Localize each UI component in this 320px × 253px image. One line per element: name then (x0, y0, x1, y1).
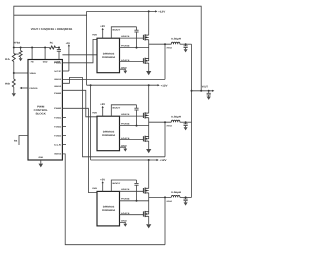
label BOOT stage 2 (113, 107, 122, 110)
label RC (50, 42, 54, 45)
wire inductor to bus stage 2 (180, 121, 192, 123)
label VOUT (202, 85, 208, 88)
wire fSET pin (19, 136, 28, 146)
wire phase vertical stage 1 (148, 40, 150, 61)
label U3 name (102, 130, 116, 137)
svg-text:PWM: PWM (92, 112, 97, 115)
svg-text:GND: GND (43, 61, 48, 64)
node feedback junction A (13, 47, 15, 49)
inductor L2 0.56uH (171, 120, 180, 122)
svg-text:PWM3: PWM3 (54, 107, 62, 110)
svg-text:RSNS: RSNS (167, 200, 173, 203)
wire +5V stub stage 3 (102, 181, 104, 191)
wire ISNS2 route (62, 78, 165, 157)
wire SMOD stage1 (62, 54, 97, 56)
wire UGATE stage 2 (120, 115, 144, 117)
wire +5V stub stage 2 (102, 106, 104, 116)
label RA (5, 58, 10, 61)
wire phase vertical stage 2 (148, 118, 150, 139)
ground (C3) (184, 202, 188, 205)
label RFB2 (13, 41, 20, 44)
svg-text:VOUT: VOUT (202, 85, 208, 88)
svg-text:UGATE: UGATE (121, 35, 130, 38)
svg-text:PGOOD: PGOOD (30, 87, 39, 90)
node ISNS tap stage 1 (164, 43, 166, 45)
svg-text:+5V: +5V (100, 25, 105, 28)
label +5V (controller) (66, 42, 71, 45)
svg-text:FDMF6820A: FDMF6820A (102, 134, 116, 137)
wire stub CLK (62, 144, 66, 146)
controller U1 PWM CONTROL BLOCK (outline) (28, 60, 62, 161)
inductor L3 0.56uH (171, 195, 180, 197)
transistor Q2 (bottom NFET) (143, 58, 148, 64)
wire source to ground stage 1 (148, 63, 150, 71)
svg-text:BOOT: BOOT (113, 107, 122, 110)
svg-text:+12V: +12V (161, 84, 168, 87)
label +12V stage 1 (158, 11, 165, 14)
svg-text:PHASE: PHASE (121, 122, 130, 125)
svg-text:PHASE: PHASE (121, 198, 130, 201)
pin label GND top (43, 61, 48, 64)
label PHASE stage 2 (121, 122, 130, 125)
wire stub TSNS3 (62, 135, 66, 137)
driver U3 (DrMOS) outline (97, 116, 120, 151)
wire FB line segment 1 (14, 47, 50, 49)
svg-text:UGATE: UGATE (121, 188, 130, 191)
label +12V stage 2 (161, 84, 168, 87)
wire +12V tap stage 2 (87, 84, 160, 86)
wire stub TSNS2 (62, 126, 66, 128)
wire ISNS3 route (62, 154, 165, 245)
svg-text:GND: GND (38, 156, 43, 159)
wire inductor feed stage 3 (149, 196, 172, 198)
svg-text:TSNS1: TSNS1 (54, 116, 62, 119)
svg-text:RB: RB (5, 82, 10, 85)
svg-text:0.56µH: 0.56µH (171, 191, 181, 194)
svg-text:PWM2: PWM2 (54, 92, 62, 95)
wire PHASE pin stage 3 (120, 200, 149, 202)
svg-text:PWM: PWM (92, 34, 97, 37)
label UGATE stage 3 (121, 188, 130, 191)
svg-text:VOUT = 0.6V(RFB1 + RFB2)/RFB1: VOUT = 0.6V(RFB1 + RFB2)/RFB1 (31, 27, 73, 31)
wire drain drop stage 3 (148, 160, 150, 188)
ground (power stage 3) (146, 224, 151, 228)
svg-text:CLK: CLK (54, 143, 62, 146)
wire LGATE stage 2 (120, 139, 144, 141)
capacitor C1 (phase output) (184, 44, 188, 49)
wire +5V stub stage 1 (102, 28, 104, 38)
pin label fSET (14, 140, 18, 143)
svg-text:PWM: PWM (92, 187, 97, 190)
wire UGATE stage 1 (120, 37, 144, 39)
svg-text:ISNS3: ISNS3 (54, 153, 62, 156)
wire drain drop stage 2 (148, 85, 150, 113)
wire UGATE stage 3 (120, 190, 144, 192)
node VOUT bus junction (191, 90, 193, 92)
transistor Q1 (top NFET) (143, 34, 148, 40)
ground (power stage 2) (146, 149, 151, 153)
transistor Q3 (top NFET) (143, 112, 148, 118)
svg-text:FDMF6820A: FDMF6820A (102, 56, 116, 59)
resistor RFB1 (to ground from FB line) (19, 47, 22, 59)
wire VOUT bus (right vertical) (191, 44, 193, 197)
ground (C1) (184, 49, 188, 52)
label UGATE stage 2 (121, 113, 130, 116)
inductor L1 0.56uH (171, 42, 180, 44)
label RSNS stage 2 (167, 125, 173, 128)
pin label FB (31, 61, 34, 64)
wire PHASE pin stage 1 (120, 47, 149, 49)
svg-text:RA: RA (5, 58, 10, 61)
svg-text:CONTROL: CONTROL (34, 109, 48, 112)
wire inductor feed stage 1 (149, 43, 172, 45)
svg-text:0.56µH: 0.56µH (171, 116, 181, 119)
node ISNS tap stage 2 (164, 121, 166, 123)
pin label COMP (54, 61, 61, 64)
svg-text:BOOT: BOOT (113, 29, 122, 32)
ground (driver U3) (123, 149, 127, 152)
svg-text:TSNS2: TSNS2 (54, 125, 62, 128)
svg-text:DRMOS: DRMOS (103, 52, 115, 55)
label L1 value (171, 38, 181, 41)
svg-text:RSNS: RSNS (167, 47, 173, 50)
label U2 name (102, 52, 116, 59)
capacitor CB2 (bootstrap) (134, 105, 138, 126)
ground (divider) (12, 93, 16, 96)
label LGATE stage 2 (121, 137, 130, 140)
svg-text:VCC: VCC (54, 70, 62, 73)
capacitor CB1 (bootstrap) (134, 27, 138, 48)
label GND pin stage 1 (121, 66, 127, 69)
wire controller ground (40, 160, 42, 164)
node output cap tap stage 3 (185, 196, 187, 198)
transistor Q4 (bottom NFET) (143, 136, 148, 142)
wire VCC stub (62, 70, 69, 72)
wire +12V tap stage 3 (91, 159, 159, 161)
wire source to ground stage 2 (148, 141, 150, 149)
resistor RB (divider lower) (12, 73, 15, 93)
wire ISNS2 vertical (164, 122, 166, 157)
wire GND pin drop (44, 47, 46, 60)
node +12V drain feed stage 3 (148, 159, 150, 161)
label U1 name (34, 106, 48, 116)
label PWM pin stage 1 (92, 34, 97, 37)
label +5V stage 3 (100, 178, 105, 181)
svg-text:TSNS3: TSNS3 (54, 134, 62, 137)
wire PHASE pin stage 2 (120, 125, 149, 127)
svg-text:VSEN: VSEN (30, 72, 37, 75)
transistor Q6 (bottom NFET) (143, 211, 148, 217)
capacitor COUT (207, 90, 211, 97)
label PHASE stage 1 (121, 44, 130, 47)
wire GND pin stage 3 (120, 222, 126, 223)
capacitor C3 (phase output) (184, 197, 188, 202)
label +5V stage 2 (100, 103, 105, 106)
ground (controller) (39, 164, 44, 168)
svg-text:RC: RC (50, 42, 54, 45)
svg-text:FB: FB (31, 61, 34, 64)
wire +5V feed (controller) (68, 44, 70, 71)
capacitor CB3 (bootstrap) (134, 180, 138, 201)
wire VSEN to controller (14, 72, 28, 74)
ground (driver U2) (123, 71, 127, 74)
label U4 name (102, 206, 116, 213)
wire PGOOD output (20, 87, 28, 89)
label LGATE stage 3 (121, 212, 130, 215)
label GND pin stage 2 (121, 144, 127, 147)
wire BOOT loop stage 1 (111, 27, 136, 38)
transistor Q5 (top NFET) (143, 188, 148, 194)
wire PWM3 route (62, 108, 97, 192)
node ISNS tap stage 3 (164, 196, 166, 198)
wire phase vertical stage 3 (148, 193, 150, 214)
svg-text:RSNS: RSNS (167, 125, 173, 128)
wire +12V distribution bus segment 1 (86, 11, 88, 85)
wire BOOT loop stage 3 (111, 180, 136, 191)
resistor RC (series comp) (50, 46, 56, 49)
wire drain drop stage 1 (148, 11, 150, 35)
wire VOUT sense rail (top, wraps from output to feedback) (14, 6, 201, 91)
wire +12V tap stage 1 (87, 10, 158, 12)
wire GND pin stage 2 (120, 147, 126, 148)
wire ISNS3 vertical (164, 197, 166, 244)
svg-text:UGATE: UGATE (121, 113, 130, 116)
capacitor CC1 (comp to COMP pin) (57, 47, 61, 60)
label BOOT stage 1 (113, 29, 122, 32)
wire BOOT loop stage 2 (111, 105, 136, 116)
wire LGATE stage 1 (120, 61, 144, 63)
svg-text:BOOT: BOOT (113, 182, 122, 185)
svg-text:+5V: +5V (66, 42, 71, 45)
label UGATE stage 1 (121, 35, 130, 38)
ground (COUT) (207, 97, 211, 100)
svg-text:DRMOS: DRMOS (103, 130, 115, 133)
label PHASE stage 3 (121, 198, 130, 201)
wire stub TSNS1 (62, 117, 66, 119)
svg-text:fS: fS (14, 140, 18, 143)
wire inductor to bus stage 3 (180, 196, 192, 198)
svg-text:+12V: +12V (158, 11, 165, 14)
label RSNS stage 1 (167, 47, 173, 50)
svg-text:PWM1: PWM1 (54, 62, 62, 65)
svg-text:FDMF6820A: FDMF6820A (102, 209, 116, 212)
label RB (5, 82, 10, 85)
ground (power stage 1) (146, 71, 151, 75)
label BOOT stage 3 (113, 182, 122, 185)
pin labels U1 right edge (54, 62, 62, 156)
capacitor C2 (phase output) (184, 122, 188, 127)
label LGATE stage 1 (121, 59, 130, 62)
svg-text:ISNS1: ISNS1 (54, 78, 62, 81)
svg-text:RFB2: RFB2 (13, 41, 20, 44)
label GND pin stage 3 (121, 220, 127, 223)
wire PWM2 route (62, 90, 97, 117)
wire GND pin stage 1 (120, 69, 126, 70)
node +12V drain feed stage 1 (148, 10, 150, 12)
svg-text:PWM: PWM (37, 106, 44, 109)
driver U2 (DrMOS) outline (97, 38, 120, 72)
driver U4 (DrMOS) outline (97, 191, 120, 226)
node VOUT sense connection (200, 90, 202, 92)
wire ISNS1 vertical (164, 44, 166, 79)
wire VOUT terminal line (192, 90, 215, 92)
node VSEN tap (13, 72, 15, 74)
label RSNS stage 3 (167, 200, 173, 203)
wire source to ground stage 3 (148, 216, 150, 224)
label +5V stage 1 (100, 25, 105, 28)
formula label VOUT = 0.6V(RFB1+RFB2)/RFB1 (31, 27, 73, 31)
svg-text:+5V: +5V (100, 178, 105, 181)
wire +12V distribution bus segment 2 (90, 84, 92, 160)
ground (RFB1) (19, 58, 23, 61)
node +12V drain feed stage 2 (148, 84, 150, 86)
label +12V stage 3 (160, 159, 167, 162)
pin label PGOOD (30, 87, 39, 90)
label L2 value (171, 116, 181, 119)
svg-text:ISNS2: ISNS2 (54, 85, 62, 88)
label RFB1 (14, 53, 19, 56)
svg-text:+5V: +5V (100, 103, 105, 106)
wire PWM1 route (62, 39, 97, 62)
wire ISNS1 route (62, 78, 165, 80)
wire LGATE stage 3 (120, 214, 144, 216)
wire FB pin drop (31, 47, 33, 60)
svg-text:+12V: +12V (160, 159, 167, 162)
node output cap tap stage 1 (185, 43, 187, 45)
pin label VSEN (30, 72, 37, 75)
ground (driver U4) (123, 224, 127, 227)
label PWM pin stage 3 (92, 187, 97, 190)
wire inductor to bus stage 1 (180, 43, 192, 45)
pin label GND bottom (38, 156, 43, 159)
resistor RA (divider upper) (12, 48, 15, 74)
wire inductor feed stage 2 (149, 121, 172, 123)
svg-text:BLOCK: BLOCK (36, 113, 46, 116)
wire +12V link (top-left) (14, 14, 87, 16)
svg-text:PHASE: PHASE (121, 44, 130, 47)
label L3 value (171, 191, 181, 194)
wire FB line segment 2 (56, 47, 60, 49)
ground (C2) (184, 127, 188, 130)
label PWM pin stage 2 (92, 112, 97, 115)
svg-text:0.56µH: 0.56µH (171, 38, 181, 41)
node output cap tap stage 2 (185, 121, 187, 123)
svg-text:DRMOS: DRMOS (103, 206, 115, 209)
